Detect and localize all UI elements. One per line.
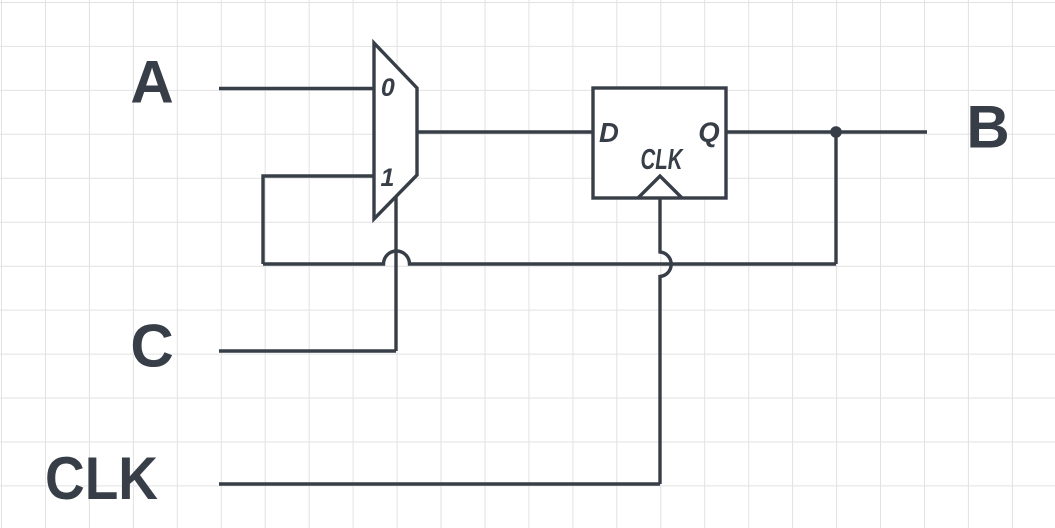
svg-text:1: 1 — [381, 164, 395, 192]
feedback wire: horizontal with hop over select wire — [263, 251, 836, 264]
junction node on Q wire — [830, 126, 842, 138]
feedback wire: junction down — [834, 132, 837, 264]
wire mux output to D input — [417, 130, 593, 133]
svg-text:D: D — [599, 117, 619, 148]
svg-text:CLK: CLK — [641, 144, 685, 176]
wire Q output to B — [726, 130, 927, 133]
clock wire horizontal — [219, 482, 660, 485]
feedback wire: up to mux input 1 — [263, 176, 374, 264]
clock wire vertical with hop over feedback wire — [660, 198, 671, 484]
wire C to mux select — [219, 349, 396, 352]
mux U1 (2:1 multiplexer) — [374, 43, 417, 219]
svg-text:A: A — [130, 48, 173, 115]
svg-text:CLK: CLK — [45, 445, 158, 512]
svg-text:0: 0 — [381, 74, 395, 102]
wire A to mux input 0 — [219, 87, 374, 90]
svg-text:C: C — [130, 313, 173, 380]
svg-text:B: B — [966, 93, 1009, 160]
svg-text:Q: Q — [698, 117, 719, 148]
clock edge triangle — [638, 176, 682, 198]
D flip-flop U2 — [593, 88, 726, 198]
mux select vertical wire — [394, 197, 397, 352]
